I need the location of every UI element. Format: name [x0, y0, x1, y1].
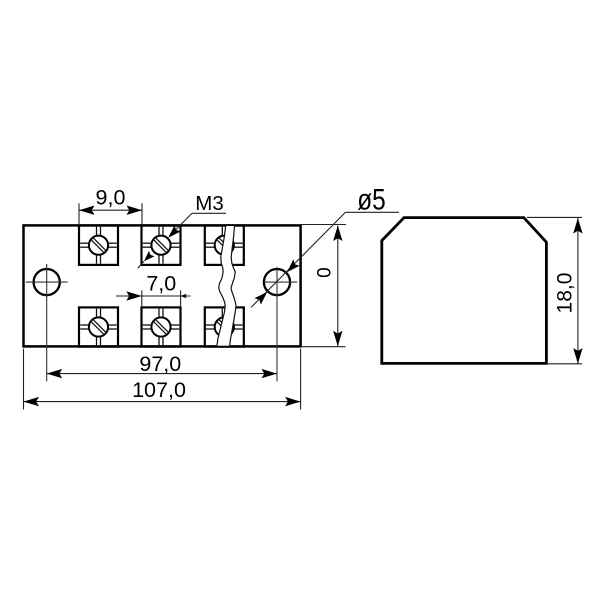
- dimension 97,0 line and arrows: [47, 373, 277, 375]
- dimension 18,0 extension line bottom: [548, 363, 582, 365]
- svg-text:97,0: 97,0: [139, 352, 181, 376]
- svg-text:18,0: 18,0: [554, 273, 577, 314]
- vertical dimension extension line bottom: [301, 346, 346, 348]
- vertical dimension line and arrows: [337, 226, 339, 347]
- terminal block body (side view): [382, 218, 547, 364]
- svg-text:9,0: 9,0: [96, 186, 126, 210]
- M3 leader line and arrows: [170, 213, 192, 235]
- dimension 107,0 extension lines: [23, 349, 25, 410]
- svg-text:7,0: 7,0: [146, 271, 176, 295]
- dimension 7,0 extension lines: [141, 290, 143, 307]
- break line left: [217, 226, 226, 346]
- screw terminal A3: [205, 226, 244, 265]
- centerline horizontal, right hole: [264, 281, 297, 283]
- dimension 18,0 line and arrows: [577, 218, 579, 364]
- dimension 7,0 line and arrows: [116, 295, 191, 297]
- break band (white-out between break lines): [217, 226, 236, 346]
- hole diameter arrows: [287, 259, 300, 272]
- mounting hole right: [264, 269, 290, 295]
- hole diameter leader shelf: [346, 211, 400, 213]
- centerline vertical, right hole (extension for 97,0): [276, 267, 278, 382]
- screw terminal B3: [205, 307, 244, 346]
- break line right: [230, 226, 236, 346]
- screw terminal A2: [142, 226, 181, 265]
- M3 leader shelf: [192, 212, 226, 214]
- svg-text:ø5: ø5: [357, 184, 386, 217]
- dimension 9,0 extension lines: [78, 203, 80, 225]
- svg-text:0: 0: [315, 267, 336, 278]
- centerline horizontal, left hole: [26, 281, 68, 283]
- dimension 18,0 extension line top: [527, 216, 582, 218]
- svg-text:M3: M3: [195, 192, 223, 215]
- mounting hole left: [34, 269, 60, 295]
- screw terminal A1: [79, 226, 118, 265]
- centerline vertical, left hole (extension for 97,0): [46, 264, 48, 382]
- hole diameter leader line: [251, 212, 345, 307]
- dimension 107,0 line and arrows: [24, 401, 301, 403]
- screw terminal B2: [142, 307, 181, 346]
- screw terminal B1: [79, 307, 118, 346]
- svg-text:107,0: 107,0: [132, 378, 186, 402]
- vertical dimension extension line top: [301, 224, 346, 226]
- terminal block body (top view): [24, 225, 301, 346]
- dimension 9,0 line and arrows: [79, 209, 142, 211]
